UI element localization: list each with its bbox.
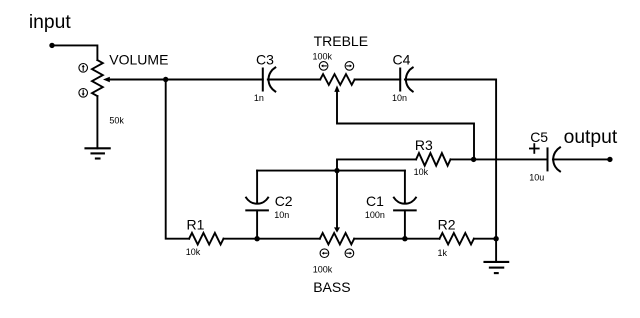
potentiometer TREBLE 100k body xyxy=(320,74,354,85)
wire bass pot to C1 node xyxy=(354,238,405,240)
svg-text:50k: 50k xyxy=(109,116,124,126)
wire volume pot bottom to ground xyxy=(96,96,98,148)
svg-text:10k: 10k xyxy=(414,167,429,177)
svg-text:C3: C3 xyxy=(256,52,274,68)
C5 plus sign xyxy=(530,144,539,153)
node input terminal xyxy=(49,43,54,48)
wire junction to ground xyxy=(495,239,497,262)
node bottom right junction xyxy=(493,236,498,241)
capacitor C1 bottom stub xyxy=(404,210,406,238)
svg-text:100n: 100n xyxy=(365,210,385,220)
treble wiper arrow xyxy=(337,92,474,160)
bass wiper arrow xyxy=(336,171,338,228)
wire junction to C5 xyxy=(474,158,548,160)
capacitor C1 top stub xyxy=(404,171,406,204)
svg-text:100k: 100k xyxy=(313,51,333,61)
node C1 bottom junction xyxy=(402,236,407,241)
node output terminal xyxy=(607,157,612,162)
svg-text:10u: 10u xyxy=(529,172,544,182)
wire left column down to bottom rail xyxy=(166,80,189,239)
wire C3 to treble pot xyxy=(268,79,320,81)
resistor R2 body xyxy=(440,233,474,244)
svg-text:C4: C4 xyxy=(393,52,411,68)
svg-text:C1: C1 xyxy=(366,193,384,209)
wire R1 to C2 node xyxy=(224,238,258,240)
svg-text:10k: 10k xyxy=(186,247,201,257)
ground (below volume pot) xyxy=(86,148,110,158)
svg-text:R2: R2 xyxy=(438,216,456,232)
capacitor C2 bottom stub xyxy=(256,210,258,238)
wire C5 to output xyxy=(553,158,610,160)
wire C2 node to bass pot xyxy=(257,238,320,240)
treble rotation mark left xyxy=(319,62,328,71)
capacitor C2 top stub xyxy=(256,171,258,204)
resistor R1 body xyxy=(189,233,223,245)
capacitor C4 plates xyxy=(400,68,413,92)
svg-text:1n: 1n xyxy=(254,93,264,103)
svg-text:100k: 100k xyxy=(313,264,333,274)
node volume wiper junction xyxy=(163,77,168,82)
wire treble pot right to C4 xyxy=(355,79,401,81)
svg-text:10n: 10n xyxy=(392,93,407,103)
svg-text:R1: R1 xyxy=(187,216,205,232)
wire R2 to right rail xyxy=(474,238,496,240)
svg-text:1k: 1k xyxy=(438,248,448,258)
node R3 output junction xyxy=(471,157,476,162)
resistor R3 body xyxy=(416,153,450,166)
bass rotation mark left xyxy=(320,249,329,258)
svg-text:10n: 10n xyxy=(274,210,289,220)
svg-text:VOLUME: VOLUME xyxy=(109,52,168,68)
svg-text:output: output xyxy=(564,127,618,148)
wire input to volume pot top xyxy=(52,45,97,60)
wire C4 right down right side xyxy=(405,80,496,239)
node C2 bottom junction xyxy=(254,236,259,241)
bass rotation mark right xyxy=(345,249,354,258)
svg-text:input: input xyxy=(29,12,71,33)
volume rotation mark down xyxy=(79,89,88,98)
ground (bottom right) xyxy=(485,262,509,273)
node mid rail junction xyxy=(334,168,339,173)
wire R3 left to mid node xyxy=(337,159,416,170)
capacitor C2 plates xyxy=(246,198,268,211)
wire R3 right to junction xyxy=(451,158,474,160)
volume rotation mark up xyxy=(79,64,88,73)
wire C1 node to R2 xyxy=(405,238,440,240)
potentiometer VOLUME 50k body xyxy=(92,60,103,96)
svg-text:BASS: BASS xyxy=(313,279,350,295)
potentiometer BASS 100k body xyxy=(320,233,354,244)
capacitor C5 plates xyxy=(548,147,561,171)
svg-text:R3: R3 xyxy=(415,137,433,153)
wire wiper node to C3 xyxy=(166,79,263,81)
wire mid node rail xyxy=(257,170,405,172)
capacitor C3 plates xyxy=(263,68,276,92)
volume wiper arrow xyxy=(110,79,166,81)
capacitor C1 plates xyxy=(394,198,416,211)
svg-text:C2: C2 xyxy=(275,193,293,209)
svg-text:C5: C5 xyxy=(530,129,548,145)
treble rotation mark right xyxy=(345,62,354,71)
svg-text:TREBLE: TREBLE xyxy=(314,33,368,49)
